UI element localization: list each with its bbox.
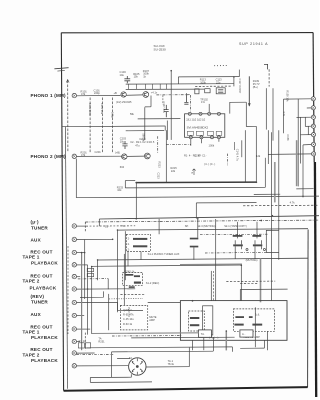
svg-text:(1/2) 2SC945: (1/2) 2SC945 (116, 100, 132, 104)
wire y351.7 (112, 350, 214, 353)
wire below S1-1 b (140, 252, 142, 260)
svg-text:220p: 220p (94, 91, 100, 95)
vertical x196.3 (195, 203, 197, 219)
R103 value (88, 103, 92, 116)
B2 label -8 (245, 331, 248, 335)
dashed wire y294.4 (120, 293, 144, 295)
U101 inner op-amp row (186, 118, 206, 122)
jog wire y106.9 (145, 106, 151, 108)
vertical x87.6 (87, 265, 89, 335)
junction dot busA x136 (136, 218, 138, 220)
svg-text:TA·: TA· (201, 332, 205, 336)
rail y89.3 (126, 88, 205, 90)
junction dot busA x272 (271, 215, 273, 217)
svg-text:SUP 21941 A: SUP 21941 A (239, 42, 268, 46)
vertical x300.6 (300, 117, 302, 163)
junction dot x91.7 busE (91, 266, 93, 268)
wire y348.4 right (240, 347, 264, 349)
wire phono1 rail (77, 94, 121, 96)
corner x264.4 (263, 340, 265, 348)
riser to U101 pin3 (208, 104, 210, 112)
dash-dot wire y234.4 (200, 233, 268, 235)
component leads between rails (129, 84, 167, 90)
bus D y259.9 (98, 258, 308, 260)
R251 label (98, 337, 105, 344)
jack J5 REC OUT 1 (72, 250, 76, 254)
jack TUNER-R wire (77, 301, 118, 303)
corner wire x125 (125, 181, 135, 188)
transistor Q202 (144, 153, 150, 159)
junction dot thick bus right (255, 181, 257, 183)
bus E y266.4 (91, 265, 241, 266)
S2 small contact dots (132, 361, 134, 363)
switch contact c1 (246, 249, 248, 251)
vertical x239 riser (238, 70, 240, 77)
corner x213.4 (212, 337, 214, 351)
svg-text:47k: 47k (81, 153, 86, 157)
svg-text:TAPE 2: TAPE 2 (23, 279, 40, 284)
svg-text:PLAYBACK: PLAYBACK (31, 261, 58, 266)
jack PB2 stub wire (77, 288, 136, 290)
dash-dot y354.4 (77, 353, 114, 355)
terminal T4 (311, 124, 315, 128)
label PLAYBACK tape3 (31, 335, 58, 340)
C105 value (100, 103, 104, 115)
vertical x91.7 (91, 267, 93, 334)
TUNER-R corner drop (117, 302, 119, 312)
svg-text:47u: 47u (135, 143, 140, 147)
dash-dot x157.7 (157, 136, 159, 153)
wire below S1-1 a (127, 252, 129, 267)
capacitor pair CP2 bar2 (253, 244, 262, 246)
small box TL2 (240, 330, 253, 337)
shield ground dash line left (67, 81, 69, 153)
svg-text:+B: +B (114, 91, 118, 95)
C141 lead segment (233, 142, 235, 150)
border break tick 1 (54, 68, 68, 69)
U101 top pin 3 (208, 112, 211, 115)
jack PB4 wire to rotary (77, 365, 129, 367)
vertical x255.3 wire (254, 307, 256, 347)
signal dash wire from Q102 (156, 94, 190, 96)
jack J4 AUX (72, 237, 76, 241)
svg-text:(4··) (C··): (4··) (C··) (204, 162, 215, 166)
U101 part number (187, 126, 209, 130)
R205 label mid (135, 143, 140, 147)
rec amp cluster label (125, 269, 136, 273)
grey vertical x226 (225, 331, 227, 351)
jack J2 PHONO2 (72, 154, 76, 158)
svg-text:2·: 2· (128, 237, 130, 241)
junction dot busB x261 (260, 220, 262, 222)
jack TUNER stub (77, 225, 87, 227)
dash-dot wire y335.8 (112, 335, 181, 337)
power label +B (114, 91, 118, 95)
corner wire right mid 2 (266, 251, 279, 253)
S1-2 label (146, 281, 160, 285)
TL2 text (242, 332, 246, 336)
frame top border (61, 32, 313, 34)
capacitor C203 symbol (122, 141, 127, 149)
vertical x111.5 (111, 352, 113, 378)
junction dot busE corner (241, 265, 243, 267)
muting label (246, 258, 258, 262)
capacitor C101 label (94, 88, 101, 95)
dash-dot x227.5 (227, 154, 229, 166)
corner wire right mid 1 (266, 230, 279, 252)
junction dot x303 on bus (302, 196, 304, 198)
svg-text:AMP: AMP (149, 318, 155, 322)
svg-text:C219: C219 (194, 154, 201, 158)
vertical x267.6 below box (267, 331, 269, 350)
C209 label (139, 137, 146, 141)
junction dot x82.9 rec (81, 252, 83, 254)
4.7k label (290, 201, 296, 205)
svg-text:S1···: S1··· (105, 224, 111, 228)
muting box text r1 (123, 308, 133, 312)
corner wire right of IC (246, 102, 256, 126)
jack J12 PLAYBACK 3 (72, 339, 76, 343)
wire y377.4 (90, 376, 131, 378)
bus C left corner drop (117, 230, 119, 311)
B2 label RY (202, 331, 206, 335)
corner x232.4 drop (231, 347, 233, 352)
dots row top (214, 65, 228, 67)
frame right border upper (313, 33, 314, 162)
resistor R113 box (205, 89, 210, 93)
vertical x268.3 (267, 130, 269, 164)
terminal T2 (311, 106, 315, 110)
capacitor C113 box (216, 88, 225, 94)
corner drop x108.2 (107, 279, 109, 290)
svg-text:S1-1 PHONO·TUNER·AUX: S1-1 PHONO·TUNER·AUX (148, 252, 180, 256)
wire y358.5 (117, 358, 130, 360)
phono2 rail wire (77, 155, 122, 157)
horizontal y120.5 (138, 118, 181, 120)
terminal T6 (311, 142, 315, 146)
grey scan line vertical (274, 162, 276, 202)
C113 inner bars (218, 89, 223, 92)
wire to terminal y99 (284, 98, 312, 100)
muting box text r3 (123, 317, 134, 321)
switch label S2-3 (197, 224, 215, 228)
relay RY box (203, 306, 213, 335)
svg-text:SVI.AN4558DX2: SVI.AN4558DX2 (187, 126, 209, 130)
jack RECOUT2 stub (77, 276, 81, 278)
R213 rotated (158, 162, 162, 169)
jack J8 PLAYBACK 2 (72, 287, 76, 291)
CP1 drop wires (235, 222, 241, 259)
100k label below IC (209, 143, 215, 147)
C109 value (110, 112, 114, 118)
shield arrow (66, 80, 69, 83)
vertical x303 (302, 145, 304, 198)
R233 label (117, 185, 124, 192)
junction dot x234 (233, 76, 235, 78)
jack RECOUT1 stub (77, 252, 85, 254)
frame left border (61, 33, 63, 391)
label PLAYBACK tape2 (30, 285, 57, 290)
label TUNER R (31, 300, 48, 305)
B2 top junction dot (192, 300, 194, 302)
muting box text r4 (123, 322, 133, 326)
left inner vertical wire (65, 126, 67, 388)
C203 labels (120, 137, 127, 144)
B2 inner bar c (234, 324, 243, 326)
B2 inner bar a (235, 316, 244, 318)
wire to terminal y153.8 (268, 153, 311, 156)
AUX drop vertical x84.7 (84, 240, 86, 299)
+B label phono2 (115, 151, 120, 155)
corner x90.3 (89, 378, 91, 383)
vertical x271.6 long (271, 132, 273, 300)
vertical x283.5 (283, 99, 285, 133)
rec cluster box 1 (78, 343, 84, 348)
terminal T1 (311, 97, 315, 101)
B+ labels (253, 79, 260, 89)
transistor Q102 (143, 92, 149, 98)
wire into TL1 y333.4 (91, 332, 198, 335)
U101 top pin 4 (217, 112, 220, 115)
C107 value (162, 102, 166, 114)
svg-text:TAPE 1: TAPE 1 (23, 329, 40, 334)
muting side label (149, 315, 157, 322)
wire Q201 to Q202 (127, 155, 144, 157)
vertical x131.3 rotary bottom (130, 374, 132, 377)
svg-text:S1-2 (REC): S1-2 (REC) (146, 281, 160, 285)
label (FM) (31, 220, 40, 225)
vertical x97.6 (97, 260, 99, 280)
svg-text:100k: 100k (209, 143, 215, 147)
label REC OUT tape1 (30, 249, 52, 254)
R201 label (81, 150, 88, 157)
transistor Q101 (121, 92, 126, 97)
transistor type label (116, 100, 132, 104)
rotated value x283 (282, 111, 286, 117)
wire to terminal y117 (297, 116, 312, 118)
svg-text:15k: 15k (134, 75, 139, 79)
long vertical x166.3 (165, 130, 167, 182)
vertical x234 with junction (233, 77, 235, 87)
label REC OUT tape3 (30, 324, 52, 329)
svg-text:R·63 1k: R·63 1k (123, 322, 133, 326)
56k label (130, 113, 135, 116)
junction dot x97.6 busD (97, 259, 99, 261)
dotted wire y298.8 (109, 298, 143, 300)
svg-text:PLAYBACK: PLAYBACK (30, 285, 57, 290)
C113 label (216, 78, 223, 85)
resistor R105 labels top (133, 72, 140, 79)
dash-dot wire from pin1 left (166, 144, 191, 146)
RECOUT1 dot (84, 252, 86, 254)
box top wire y202.7 (196, 202, 256, 204)
rec cluster labels (79, 339, 87, 343)
label TAPE 1 R (23, 329, 40, 334)
svg-text:S2-3 (MUTING): S2-3 (MUTING) (197, 224, 215, 228)
wire y310.7 (118, 310, 144, 312)
R139 rotated value (286, 90, 290, 102)
capacitor C109 dashed drop (112, 98, 114, 153)
resistor R109 vertical value (142, 134, 146, 142)
jack J11 REC OUT 3 (72, 327, 76, 331)
S1-2 bar 2 (134, 282, 141, 284)
switch box inner text (128, 237, 130, 252)
svg-text:(REV): (REV) (31, 294, 45, 299)
component text row below IC 2 (204, 162, 215, 166)
jack J10 AUX R (72, 313, 76, 317)
svg-text:2·: 2· (128, 247, 130, 251)
U101 pin box 4 (216, 131, 222, 135)
C141 rotated value (235, 149, 239, 162)
dash-dot wire y278.8 (78, 278, 108, 280)
svg-text:C156: C156 (286, 134, 290, 141)
terminal T3 (311, 115, 315, 119)
S1-1 label (148, 252, 180, 256)
svg-text:10k: 10k (117, 188, 122, 192)
horizontal y126.5 from border (62, 125, 165, 128)
svg-text:P.8V 0.5: P.8V 0.5 (127, 307, 131, 317)
svg-text:TUNER: TUNER (31, 226, 48, 231)
label TUNER (31, 226, 48, 231)
right verticals x266 (265, 88, 267, 129)
B2 inner bar b (249, 316, 253, 318)
svg-text:SP·: SP· (185, 224, 189, 228)
svg-text:100k: 100k (200, 80, 206, 84)
svg-text:PHONO 2 (MM): PHONO 2 (MM) (31, 154, 67, 159)
vertical x305 (304, 117, 306, 126)
vertical x241.8 (241, 140, 243, 157)
grey overlay busE right (180, 263, 242, 265)
vertical x192.5 below box (192, 340, 194, 350)
svg-text:A··: A·· (242, 332, 246, 336)
phono2 down wire (75, 159, 77, 198)
paper edge right (315, 162, 316, 397)
R113 label (200, 78, 207, 85)
jack RECOUT4 stub (77, 352, 95, 354)
value 604 below Q201 (120, 165, 125, 169)
junction dot busC left (117, 229, 119, 231)
svg-text:(+B): (+B) (115, 151, 120, 155)
svg-text:10u: 10u (120, 73, 125, 77)
dashed wire y283.4 (240, 282, 258, 284)
label TAPE 2 (23, 279, 40, 284)
bus A left corner drop (98, 219, 100, 226)
svg-text:100p: 100p (110, 112, 114, 118)
border break tick 2 (57, 69, 64, 72)
wire to terminal y134.5 (300, 134, 311, 136)
resistor pair bottom-left R2 (87, 273, 93, 276)
dash-dot x85.3 bottom (84, 333, 86, 351)
resistor R101 label (81, 89, 88, 96)
junction dot top (170, 70, 172, 72)
component K bars 2 (190, 246, 199, 248)
transistor Q201 (122, 154, 127, 159)
dashed vertical x269 (268, 69, 270, 86)
vertical x298 (297, 99, 299, 186)
frame bottom border (64, 387, 308, 391)
wire y382.2 (90, 381, 152, 384)
jack AUX stub (77, 238, 113, 240)
jack PB3 stub (77, 341, 80, 343)
bracket mark top right (264, 64, 268, 69)
bus A y218.7 (99, 216, 319, 219)
U101 pin box 1 (187, 131, 193, 135)
rec amp cluster bar 1 (125, 274, 133, 276)
C156 rotated value (286, 134, 290, 141)
jack RECOUT3 stub (77, 328, 91, 330)
grey vertical x260.5 (260, 259, 262, 303)
label AUX R (31, 312, 42, 317)
headphone amp box B2 (180, 301, 287, 341)
U101 bottom pin 2 (200, 136, 203, 139)
label TAPE 2 R (23, 352, 40, 357)
wire from pin4 up right (230, 102, 247, 113)
bus B left dash drop (84, 222, 86, 232)
svg-text:47k: 47k (81, 92, 86, 96)
vertical x265.3 (264, 158, 266, 188)
svg-text:22k: 22k (171, 169, 176, 173)
svg-text:SU-2530: SU-2530 (154, 47, 166, 51)
12k label (256, 154, 261, 158)
svg-text:22u: 22u (216, 80, 221, 84)
label PLAYBACK tape1 (31, 261, 58, 266)
title text sheet number (239, 42, 268, 46)
capacitor C103 symbol (124, 76, 130, 83)
thick bus y182.4 (136, 181, 256, 184)
U101 top pin 2 (199, 112, 202, 115)
jack AUX-R stub (77, 315, 85, 317)
component K bars 1 (190, 238, 199, 240)
S2 hub (136, 365, 139, 368)
bus B dash-dot y221.8 (85, 220, 319, 222)
svg-text:C107 47u: C107 47u (162, 102, 166, 114)
C219 label (194, 154, 201, 158)
svg-text:C·45 10u: C·45 10u (123, 317, 134, 321)
vertical x256 down to bus (255, 126, 257, 182)
U101 bottom pin 1 (189, 136, 192, 139)
capacitor pair CP1 bar1 (233, 235, 243, 237)
svg-text:AUX: AUX (31, 312, 42, 317)
drop from busA to S1-1 (158, 219, 160, 234)
label AUX (31, 238, 42, 243)
resistor pair bottom-left R1 (87, 268, 93, 271)
component text row y141.8 (130, 140, 155, 144)
svg-text:(B+): (B+) (253, 85, 258, 89)
svg-text:4.7k: 4.7k (290, 201, 296, 205)
jack J1 PHONO1 (72, 93, 76, 97)
U101 top pin 1 (188, 112, 191, 115)
wire y302.5 into B2 (148, 301, 181, 303)
dashed rail y86.3 (195, 85, 232, 87)
label PLAYBACK tape4 (31, 358, 58, 363)
svg-text:+4.1v: +4.1v (151, 91, 158, 95)
vertical x144.8 lower (144, 107, 146, 140)
collector wire Q102 (150, 96, 152, 107)
S1-1 contact bar 2 (133, 245, 147, 247)
svg-text:12k: 12k (256, 154, 261, 158)
dashed wire y281.4 (226, 280, 275, 282)
frame right border lower (inner) (307, 230, 310, 388)
title text model number (154, 44, 166, 52)
AUX stub end dot (112, 239, 114, 241)
label (REV) (31, 294, 45, 299)
label REC OUT tape2 (30, 274, 52, 279)
C213 rotated (157, 173, 161, 180)
jack J7 REC OUT 2 (72, 274, 76, 278)
U101 bottom pin 3 (211, 136, 214, 139)
switch label SW row 1 (122, 224, 127, 228)
U101 bottom pin 4 (217, 136, 220, 139)
